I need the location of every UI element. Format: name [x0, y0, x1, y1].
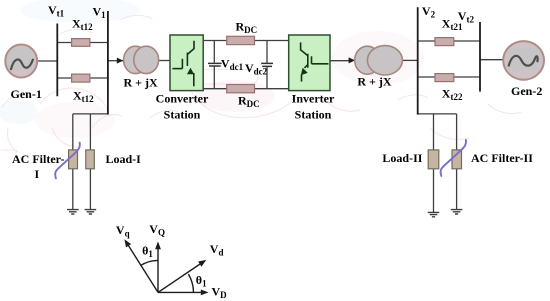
svg-text:Station: Station: [164, 107, 201, 121]
svg-text:Load-I: Load-I: [106, 152, 142, 166]
svg-text:Station: Station: [295, 107, 332, 121]
svg-text:Xt12: Xt12: [73, 89, 94, 105]
svg-text:Vd: Vd: [210, 242, 224, 258]
svg-text:I: I: [35, 167, 40, 181]
svg-text:R + jX: R + jX: [357, 75, 392, 89]
svg-text:R + jX: R + jX: [124, 76, 159, 90]
svg-text:Inverter: Inverter: [292, 91, 335, 105]
svg-text:Gen-2: Gen-2: [511, 84, 542, 98]
svg-text:Vdc1: Vdc1: [221, 57, 244, 73]
svg-text:RDC: RDC: [236, 20, 258, 36]
svg-text:AC Filter-: AC Filter-: [12, 152, 65, 166]
svg-text:Load-II: Load-II: [382, 151, 422, 165]
svg-text:Xt22: Xt22: [442, 87, 463, 103]
svg-text:θ1: θ1: [196, 273, 207, 289]
svg-text:Vq: Vq: [116, 223, 130, 239]
svg-text:VQ: VQ: [149, 222, 165, 238]
svg-text:Converter: Converter: [156, 91, 209, 105]
svg-text:AC Filter-II: AC Filter-II: [471, 151, 533, 165]
svg-text:V2: V2: [422, 4, 436, 20]
svg-text:θ1: θ1: [142, 244, 153, 260]
svg-text:VD: VD: [212, 285, 228, 301]
svg-text:Gen-1: Gen-1: [11, 87, 42, 101]
